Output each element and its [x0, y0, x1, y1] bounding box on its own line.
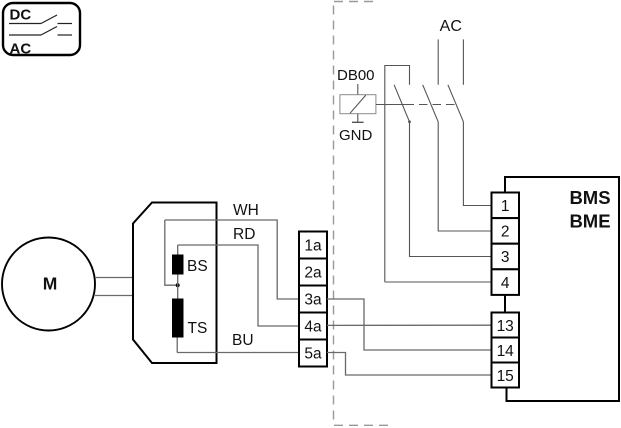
svg-text:DB00: DB00	[337, 67, 375, 84]
svg-text:1a: 1a	[304, 238, 322, 255]
terminal 1a	[299, 232, 327, 259]
terminal 14	[492, 338, 520, 363]
terminal 3a	[299, 286, 327, 313]
switch contact S2	[423, 85, 439, 122]
svg-text:4a: 4a	[304, 319, 322, 336]
node blade S1 bottom	[408, 120, 411, 123]
svg-text:2a: 2a	[304, 265, 322, 282]
svg-text:AC: AC	[10, 41, 32, 58]
motor M	[2, 238, 95, 331]
svg-text:3a: 3a	[304, 292, 322, 309]
svg-text:BU: BU	[232, 332, 254, 349]
terminal 3	[492, 244, 520, 270]
svg-text:4: 4	[501, 275, 510, 292]
ground	[352, 121, 364, 123]
motor shaft wires	[95, 278, 133, 296]
legend AC switch	[9, 27, 72, 36]
wire TS top lead	[177, 285, 179, 298]
svg-text:GND: GND	[339, 127, 373, 144]
switch contact S1	[394, 85, 409, 122]
svg-text:BS: BS	[187, 258, 208, 275]
svg-text:13: 13	[497, 318, 514, 335]
wire RD to 4a	[178, 245, 299, 326]
wire WH branch inside housing	[165, 220, 177, 285]
wire TS bottom lead	[176, 338, 178, 353]
wire bracket to BMS 4	[385, 281, 492, 283]
terminal 4a	[299, 313, 327, 340]
svg-text:TS: TS	[188, 320, 208, 337]
controller box BMS/BME	[505, 177, 619, 401]
wire WH to 3a	[165, 220, 299, 299]
node junction BS/TS	[176, 283, 180, 287]
wire BS bottom lead	[177, 275, 179, 286]
terminal 15	[492, 363, 520, 388]
svg-text:BMS: BMS	[569, 187, 610, 208]
relay linkage (mechanical)	[376, 104, 414, 106]
svg-text:15: 15	[497, 368, 514, 385]
terminal 4	[492, 269, 520, 295]
legend DC switch	[9, 15, 72, 24]
wire 4a to BMS 13	[327, 324, 492, 326]
pump housing	[133, 203, 217, 364]
wire S1 to BMS 3	[410, 122, 492, 257]
terminal 2	[492, 218, 520, 244]
svg-text:WH: WH	[233, 202, 259, 219]
terminal 1	[492, 193, 520, 219]
sensor TS	[172, 299, 184, 338]
svg-text:5a: 5a	[304, 346, 322, 363]
wire AC feed L1	[437, 39, 439, 84]
legend box	[3, 3, 80, 55]
svg-text:RD: RD	[233, 226, 255, 243]
wire BU to 5a	[177, 352, 299, 354]
svg-text:3: 3	[501, 249, 510, 266]
svg-text:1: 1	[501, 198, 510, 215]
svg-text:DC: DC	[10, 6, 32, 23]
wire S3 to BMS 1	[463, 122, 491, 206]
wire 5a to BMS 15	[327, 353, 492, 376]
svg-text:AC: AC	[440, 18, 462, 35]
wire AC feed L2	[462, 39, 464, 84]
svg-text:2: 2	[501, 224, 510, 241]
dashed enclosure boundary	[334, 0, 392, 425]
sensor BS	[172, 255, 184, 275]
terminal 13	[492, 313, 520, 338]
wire 3a to BMS 14	[327, 299, 492, 350]
terminal 2a	[299, 259, 327, 286]
wire S2 to BMS 2	[438, 122, 491, 231]
terminal 5a	[299, 340, 327, 367]
wire BS top lead	[177, 245, 179, 255]
wire aux bracket	[385, 66, 410, 283]
svg-text:M: M	[43, 274, 58, 294]
switch contact S3	[448, 85, 464, 122]
svg-text:14: 14	[497, 343, 515, 360]
svg-text:BME: BME	[569, 211, 610, 232]
relay coil DB00	[340, 84, 376, 122]
